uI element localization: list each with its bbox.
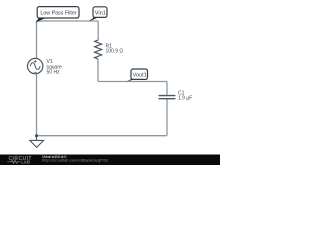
- wire bottom horizontal (ground net): [37, 135, 168, 137]
- ground: [30, 136, 44, 148]
- resistor R1: [95, 40, 102, 59]
- svg-text:1.9 µF: 1.9 µF: [178, 95, 192, 101]
- svg-text:Vin1: Vin1: [95, 10, 106, 16]
- wire capacitor bottom lead: [166, 99, 168, 136]
- svg-text:100.9 Ω: 100.9 Ω: [106, 49, 124, 55]
- flag Vout1: [127, 69, 148, 82]
- wire resistor top lead: [97, 21, 99, 40]
- capacitor C1: [159, 96, 176, 99]
- footer bar: [0, 155, 220, 166]
- label R1 value: [106, 44, 124, 55]
- voltage source V1: [28, 58, 43, 73]
- wire capacitor top lead: [166, 82, 168, 96]
- svg-text:Low Pass Filter: Low Pass Filter: [40, 11, 76, 17]
- label V1 value: [47, 59, 63, 75]
- flag Low Pass Filter: [36, 7, 80, 23]
- svg-text:50 Hz: 50 Hz: [47, 69, 61, 75]
- svg-text:Vout1: Vout1: [133, 73, 147, 79]
- junction dot: [35, 134, 38, 137]
- svg-text:LAB: LAB: [21, 160, 30, 165]
- footer logo resistor glyph: [7, 160, 21, 163]
- footer CircuitLab logo: [9, 156, 32, 165]
- wire left vertical through V1: [36, 21, 38, 136]
- label C1 value: [178, 90, 192, 101]
- svg-text:http://circuitlab.com/c86apm3e: http://circuitlab.com/c86apm3egf763: [42, 158, 109, 163]
- wire top horizontal (Vin net): [37, 20, 99, 22]
- wire mid horizontal (Vout net): [98, 81, 167, 83]
- wire resistor bottom lead: [97, 59, 99, 82]
- flag Vin1: [89, 7, 108, 22]
